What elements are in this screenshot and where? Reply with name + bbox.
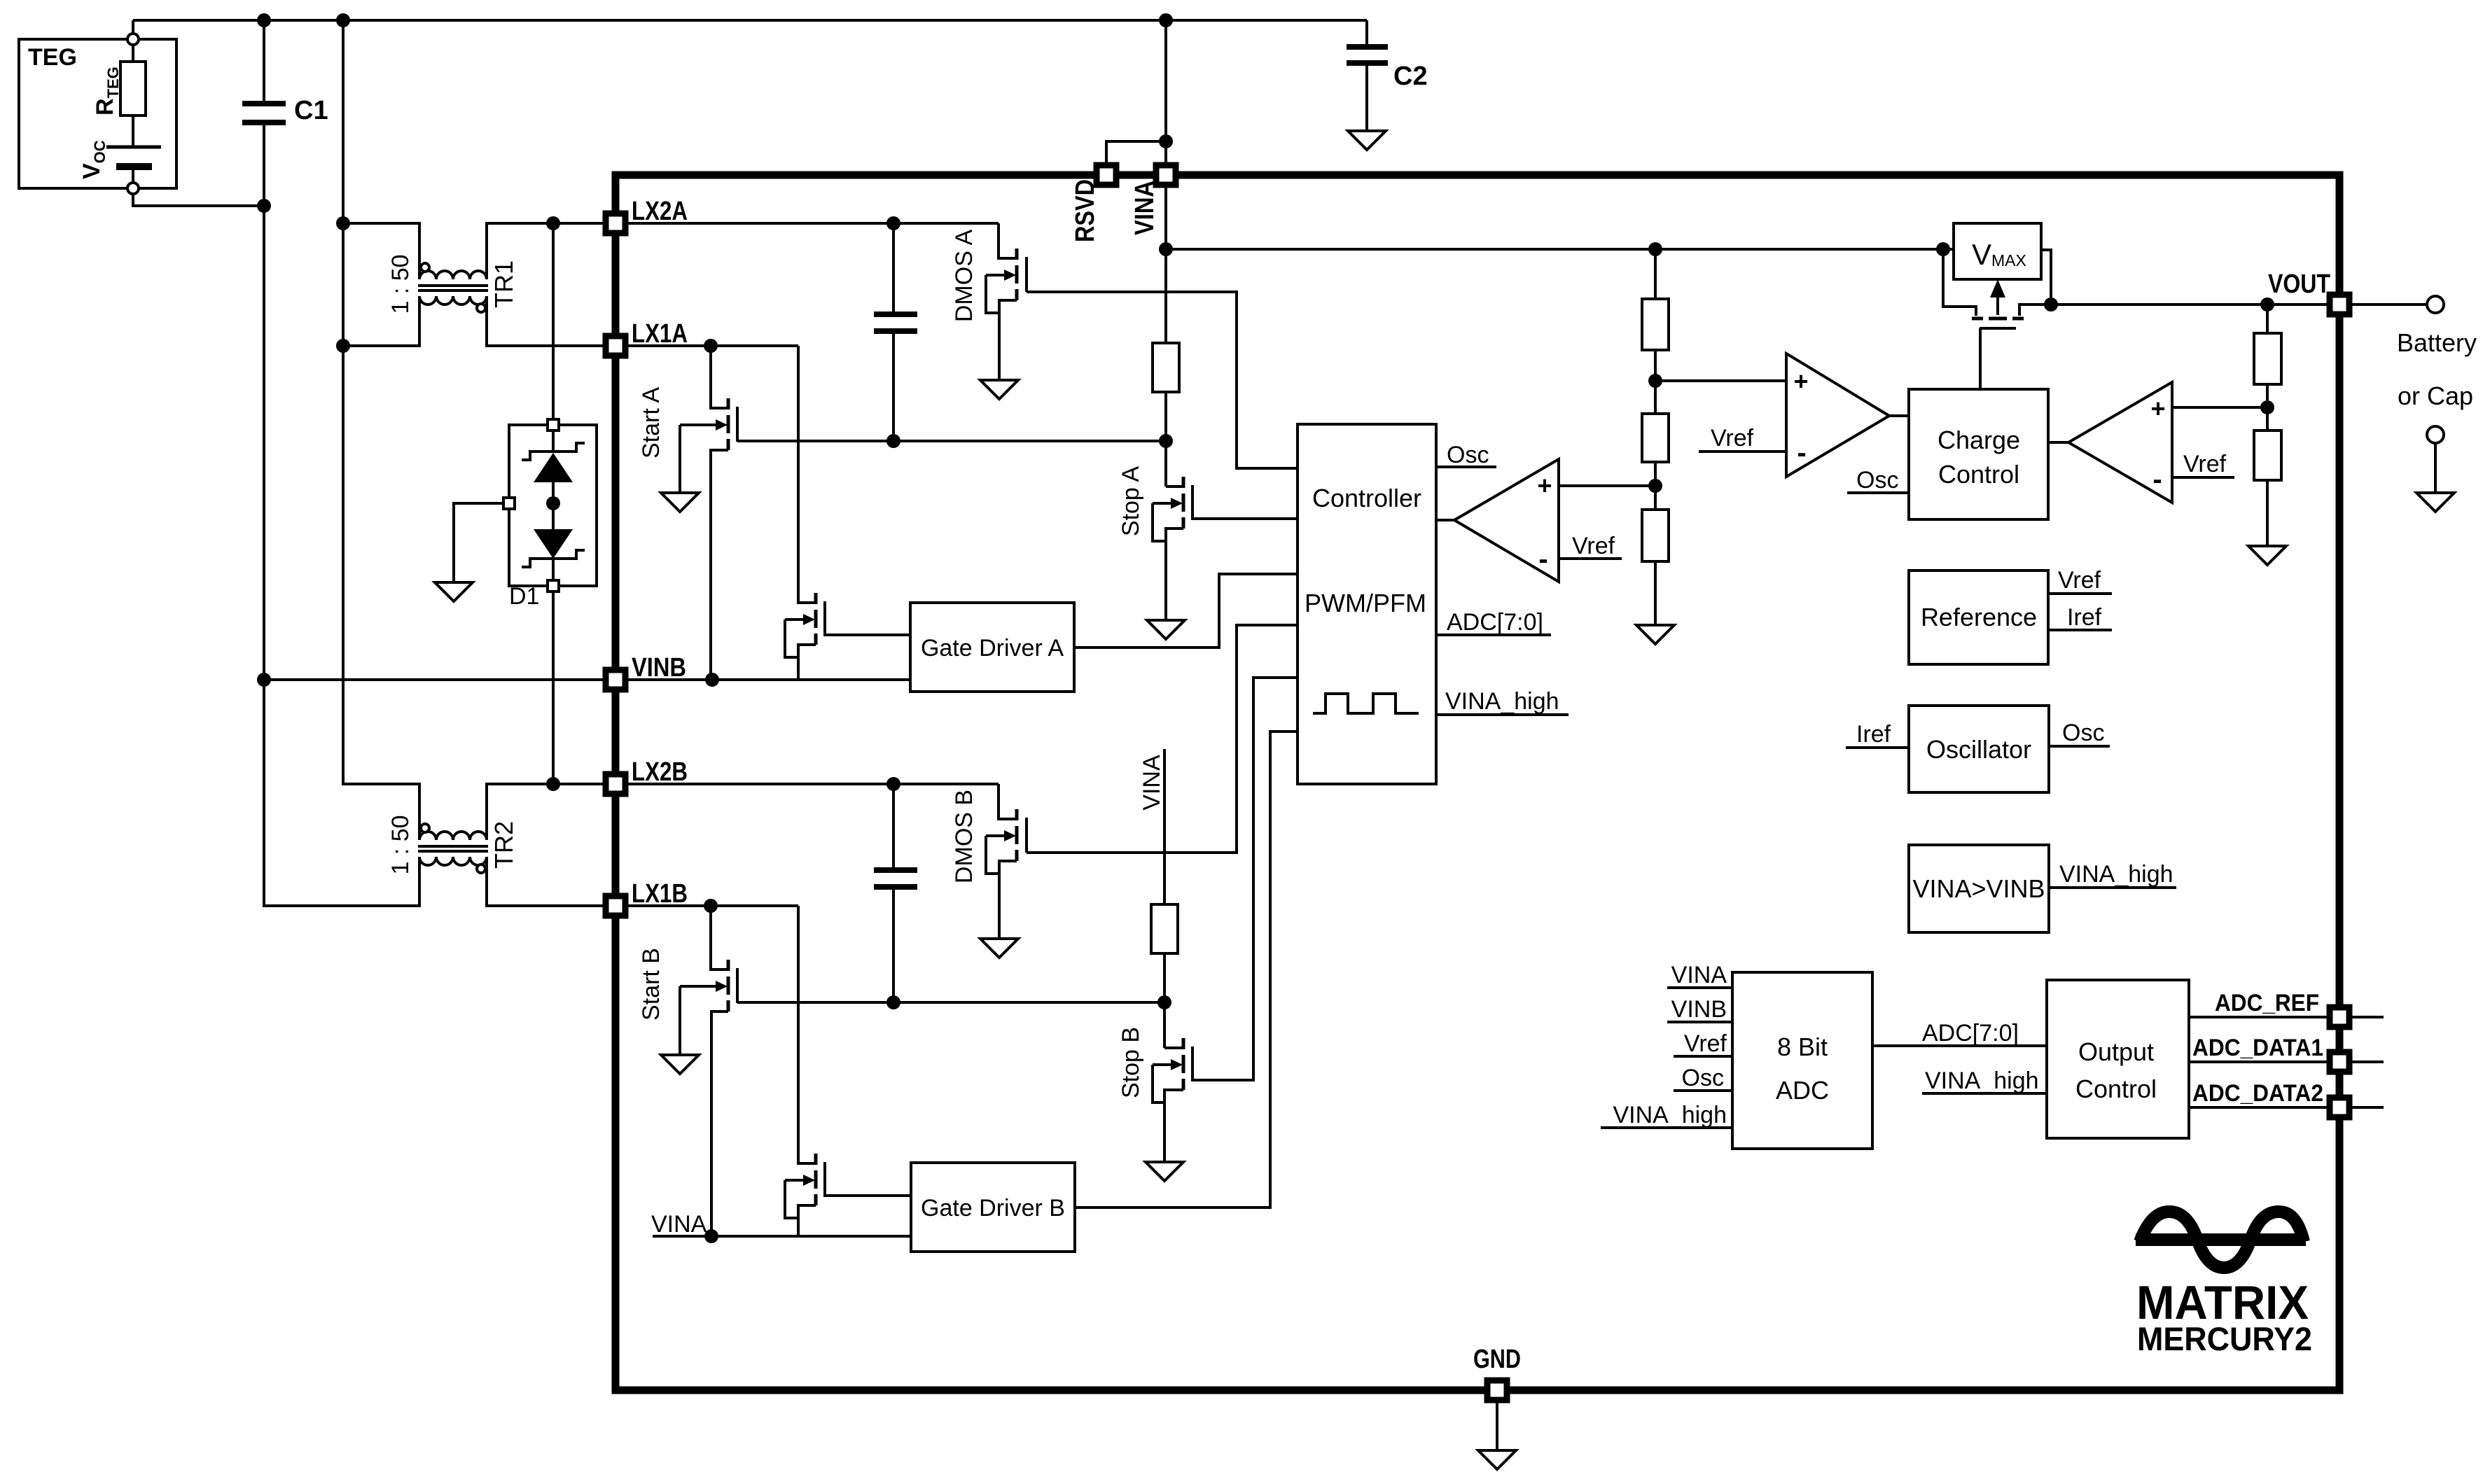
wire Vmax left bracket: [1943, 249, 1976, 316]
svg-text:1 : 50: 1 : 50: [387, 254, 414, 314]
svg-text:Stop B: Stop B: [1118, 1027, 1144, 1098]
terminal TEG-: [127, 183, 139, 194]
terminal Battery return: [2427, 426, 2444, 443]
net stub VINA adc: [1667, 986, 1732, 989]
svg-text:C2: C2: [1393, 62, 1428, 91]
svg-text:Oscillator: Oscillator: [1926, 735, 2031, 764]
node divider tap2: [1648, 479, 1662, 493]
wire GDA gate input: [825, 633, 910, 636]
svg-text:+: +: [1793, 367, 1808, 395]
net stub Osc adc: [1674, 1089, 1732, 1092]
wire battery to TEG-: [132, 167, 134, 183]
ground DMOS B: [980, 939, 1018, 958]
svg-text:RSVD: RSVD: [1071, 179, 1100, 242]
svg-text:LX1A: LX1A: [632, 319, 688, 349]
svg-text:Vref: Vref: [2183, 451, 2227, 477]
svg-text:Iref: Iref: [1856, 721, 1891, 748]
wire LX1B net: [615, 904, 798, 907]
wire top rail: [133, 19, 1367, 22]
svg-text:VINB: VINB: [1671, 996, 1727, 1023]
terminal Battery: [2427, 296, 2444, 313]
svg-text:Iref: Iref: [2067, 604, 2102, 631]
wire Stop B gate to controller: [1192, 678, 1298, 1080]
net stub Vref PWM comparator: [1559, 557, 1622, 560]
ground D1: [435, 582, 473, 601]
wire VOUT comparator output: [2048, 441, 2068, 444]
box Controller PWM/PFM: [1298, 424, 1436, 784]
svg-text:Vref: Vref: [1684, 1030, 1727, 1057]
op-amp VOUT comparator: [2068, 382, 2172, 503]
wire TEG bottom lead: [133, 194, 264, 206]
wire LX2B net: [615, 783, 999, 785]
svg-text:Osc: Osc: [1447, 442, 1489, 468]
node VOUT divider tap: [2260, 400, 2274, 414]
net stub Vref charge comparator: [1699, 450, 1786, 453]
svg-text:ADC[7:0]: ADC[7:0]: [1447, 609, 1543, 636]
pin VOUT square: [2330, 295, 2349, 314]
node TR1-top/D1 junction: [546, 216, 560, 230]
svg-text:ADC: ADC: [1776, 1076, 1829, 1105]
net stub VINA_high adc: [1601, 1126, 1732, 1129]
op-amp charge comparator left: [1786, 353, 1889, 477]
transistor Vmax pass PMOS: [1972, 250, 2051, 328]
node VINA/Vmax junction: [1936, 242, 1950, 256]
svg-text:D1: D1: [509, 583, 539, 610]
node VINB/column junction: [257, 673, 271, 687]
wire TR1 secondary top to D1: [552, 223, 555, 425]
svg-text:DMOS B: DMOS B: [951, 790, 978, 883]
net stub VINA_high controller: [1436, 713, 1569, 716]
wire PWM comparator plus input: [1559, 484, 1655, 487]
ground Start A: [661, 493, 699, 512]
ground battery: [2416, 493, 2454, 512]
svg-text:ADC[7:0]: ADC[7:0]: [1922, 1020, 2019, 1046]
wire Stop A gate to controller: [1192, 517, 1298, 520]
wire Start A gate row: [737, 440, 1166, 442]
node D1/LX2B junction: [546, 777, 560, 791]
svg-text:VOUT: VOUT: [2268, 269, 2330, 299]
svg-text:-: -: [2152, 464, 2162, 495]
node VINB/StartA-source junction: [705, 673, 719, 687]
transistor DMOS A: [951, 223, 1027, 380]
op-amp PWM comparator: [1454, 459, 1559, 582]
svg-text:Charge: Charge: [1938, 426, 2020, 454]
capacitor A: [892, 223, 895, 441]
svg-text:Osc: Osc: [1856, 467, 1898, 493]
node TR1 primary bottom: [336, 339, 350, 353]
wire VINA row: [1166, 248, 1943, 251]
svg-text:VINA_high: VINA_high: [1925, 1067, 2039, 1094]
wire Start B gate row: [737, 1001, 1164, 1004]
wire VINA column: [1164, 20, 1167, 486]
ground divider: [1636, 625, 1674, 644]
node LX1A/StartA junction: [704, 339, 718, 353]
svg-text:TR2: TR2: [489, 821, 518, 869]
net stub Vref VOUT comparator: [2172, 476, 2234, 479]
pin ADC_REF square: [2330, 1007, 2349, 1027]
capacitor C1: [263, 20, 265, 104]
svg-text:VINA_high: VINA_high: [1445, 688, 1559, 715]
ground Stop A: [1147, 620, 1185, 639]
svg-text:Reference: Reference: [1921, 603, 2037, 631]
wire Vmax gate to charge control: [1979, 328, 1982, 389]
wire divider mid2: [1654, 462, 1657, 510]
svg-text:VINA_high: VINA_high: [2059, 861, 2173, 888]
wire resistor to Stop B: [1163, 953, 1166, 1048]
svg-text:-: -: [1797, 437, 1806, 468]
capacitor B: [892, 784, 895, 1002]
wire GDB output to controller: [1075, 731, 1298, 1207]
wire VINB net: [264, 678, 910, 681]
pin ADC_DATA1 square: [2330, 1052, 2349, 1072]
ground VOUT divider: [2248, 546, 2286, 565]
pin LX2A square: [606, 213, 625, 233]
TEG box: [19, 39, 176, 188]
logo wave mark: [2136, 1212, 2306, 1268]
net label VINA wire B: [653, 1235, 911, 1238]
wire GDB gate input: [825, 1194, 911, 1197]
svg-text:LX2A: LX2A: [632, 197, 688, 226]
node RSVD/VINA junction: [1159, 134, 1173, 148]
svg-text:1 : 50: 1 : 50: [387, 815, 414, 874]
transistor Start A: [638, 346, 737, 680]
wire VOUT row: [2051, 303, 2427, 306]
node LX2B/capB junction: [886, 777, 900, 791]
wire LX1A net: [615, 344, 798, 347]
wire D1 bottom to LX2B: [552, 591, 555, 784]
svg-text:ADC_DATA1: ADC_DATA1: [2192, 1035, 2323, 1061]
node top-rail/C1 junction: [257, 13, 271, 27]
wire DMOS A gate to controller: [1027, 292, 1298, 468]
node TR1 primary top: [336, 216, 350, 230]
svg-text:Start B: Start B: [638, 948, 665, 1021]
resistor Stop B pull: [1151, 904, 1178, 953]
svg-text:-: -: [1538, 544, 1547, 575]
net stub Osc charge control: [1847, 491, 1909, 494]
pin LX1B square: [606, 896, 625, 916]
node VOUT/divider junction: [2260, 297, 2274, 311]
svg-text:C1: C1: [294, 96, 328, 125]
svg-text:+: +: [2150, 394, 2165, 423]
node top-rail/TR-primary junction: [336, 13, 350, 27]
svg-text:Battery: Battery: [2397, 328, 2477, 357]
svg-text:VINA: VINA: [651, 1211, 707, 1238]
battery VOC: [106, 146, 161, 149]
resistor Stop A pull: [1153, 343, 1179, 392]
wire Start A body to ground: [679, 425, 681, 493]
box 8 Bit ADC: [1732, 972, 1872, 1149]
node VINA/Vmax-row junction: [1159, 242, 1173, 256]
svg-text:VINB: VINB: [632, 653, 686, 682]
svg-text:8 Bit: 8 Bit: [1777, 1032, 1828, 1061]
wire Start B body to ground: [679, 986, 681, 1055]
svg-text:ADC_REF: ADC_REF: [2215, 990, 2319, 1016]
resistor RTEG: [120, 62, 146, 115]
wire GND lead: [1496, 1400, 1498, 1450]
wire ADC_DATA2: [2189, 1106, 2384, 1109]
net stub Osc oscillator: [2049, 745, 2110, 748]
wire TEG internal top: [132, 45, 134, 62]
wire divider mid1: [1654, 350, 1657, 414]
svg-text:GND: GND: [1473, 1345, 1521, 1374]
box Oscillator: [1909, 706, 2049, 792]
svg-text:Gate Driver B: Gate Driver B: [921, 1195, 1065, 1221]
wire ADC_REF: [2189, 1016, 2384, 1018]
resistor divider R2: [1642, 414, 1669, 462]
wire battery return to ground: [2434, 443, 2437, 493]
svg-text:+: +: [1537, 471, 1552, 500]
wire charge comparator output: [1889, 414, 1909, 417]
wire ADC[7:0] bus: [1872, 1044, 2047, 1047]
svg-text:Osc: Osc: [2062, 720, 2104, 746]
svg-text:or Cap: or Cap: [2398, 381, 2473, 410]
resistor VOUT divider Ra: [2254, 333, 2281, 384]
wire charge comparator plus input: [1655, 379, 1786, 382]
box Output Control: [2047, 980, 2189, 1138]
svg-text:Controller: Controller: [1312, 484, 1421, 512]
node Stop A drain junction: [1159, 434, 1173, 448]
wire C1 bottom column to TR2 primary low side: [264, 122, 419, 906]
transformer TR1: [343, 223, 615, 346]
svg-text:VINA_high: VINA_high: [1613, 1102, 1727, 1128]
box Gate Driver A: [910, 603, 1074, 692]
wire RSVD hook: [1106, 141, 1166, 165]
pin LX2B square: [606, 774, 625, 794]
net label VINA stub B: [1163, 749, 1166, 904]
svg-text:TR1: TR1: [489, 260, 518, 308]
net stub Iref oscillator: [1846, 746, 1909, 749]
svg-text:LX1B: LX1B: [632, 879, 688, 909]
transistor Start B: [638, 906, 737, 1236]
svg-text:Gate Driver A: Gate Driver A: [921, 635, 1064, 661]
node Stop B drain junction: [1157, 995, 1171, 1009]
ground GND: [1478, 1450, 1516, 1469]
net stub Osc controller: [1436, 465, 1496, 468]
node top-rail/VINA junction: [1159, 13, 1173, 27]
svg-text:Vref: Vref: [1572, 533, 1615, 559]
wire comparator PWM output: [1436, 519, 1454, 521]
svg-text:VINA: VINA: [1671, 962, 1727, 988]
pin RSVD square: [1097, 165, 1116, 185]
pin GND square: [1487, 1380, 1507, 1400]
svg-text:Control: Control: [1938, 460, 2019, 489]
svg-text:VINA: VINA: [1139, 755, 1165, 811]
svg-text:DMOS A: DMOS A: [951, 230, 978, 323]
square wave glyph: [1313, 694, 1419, 713]
wire divider top: [1654, 249, 1657, 299]
terminal TEG+: [127, 34, 139, 45]
node LX1B/StartB junction: [704, 899, 718, 913]
node LX2A/capA junction: [886, 216, 900, 230]
box Charge Control: [1909, 389, 2048, 519]
svg-text:Start A: Start A: [638, 387, 665, 458]
svg-text:VINA: VINA: [1130, 181, 1160, 235]
transistor Stop A: [1118, 466, 1192, 620]
wire TR primary feed column: [343, 20, 419, 784]
node VINA/StartB source junction: [704, 1229, 718, 1243]
pin VINB square: [606, 670, 625, 689]
net stub Iref reference: [2048, 629, 2112, 631]
wire D1 left lead to ground: [454, 503, 503, 582]
transistor Gate Driver B input FET: [785, 906, 825, 1236]
net stub Vref reference: [2048, 592, 2112, 595]
box VMAX: [1954, 223, 2041, 279]
ground Stop B: [1146, 1162, 1183, 1181]
transistor Stop B: [1118, 1027, 1192, 1162]
wire RTEG to battery: [132, 115, 134, 147]
node capA/gate row junction: [886, 434, 900, 448]
IC boundary: [615, 175, 2339, 1390]
transformer TR2: [264, 784, 615, 906]
net stub Vref adc: [1674, 1055, 1732, 1058]
svg-text:Vref: Vref: [2058, 567, 2101, 594]
net stub VINA_high output control: [1922, 1092, 2047, 1095]
ground Start B: [661, 1055, 699, 1074]
svg-text:VINA>VINB: VINA>VINB: [1912, 874, 2045, 903]
node divider/VINA row: [1648, 242, 1662, 256]
wire VOUT divider mid: [2266, 384, 2269, 430]
diode pair D1: [503, 419, 597, 610]
wire TEG top lead: [132, 20, 134, 34]
node TEG-/C1 junction: [257, 199, 271, 213]
wire divider bottom: [1654, 561, 1657, 625]
wire ADC_DATA1: [2189, 1060, 2384, 1063]
wire VOUT comparator plus input: [2172, 406, 2267, 409]
box Reference: [1909, 570, 2048, 664]
resistor divider R1: [1642, 299, 1669, 350]
transistor DMOS B: [951, 784, 1027, 939]
wire VOUT divider bottom: [2266, 480, 2269, 546]
svg-text:MERCURY2: MERCURY2: [2137, 1320, 2312, 1357]
svg-text:Output: Output: [2078, 1037, 2154, 1066]
svg-text:PWM/PFM: PWM/PFM: [1305, 589, 1426, 617]
net stub ADC[7:0] controller: [1436, 633, 1551, 636]
resistor VOUT divider Rb: [2254, 430, 2281, 480]
svg-text:Vref: Vref: [1711, 425, 1754, 451]
box Gate Driver B: [911, 1163, 1075, 1252]
resistor divider R3: [1642, 510, 1669, 561]
wire DMOS B gate to controller: [1027, 625, 1298, 853]
svg-text:TEG: TEG: [28, 44, 77, 71]
node capB/gate row junction: [886, 995, 900, 1009]
svg-text:ADC_DATA2: ADC_DATA2: [2192, 1080, 2323, 1107]
pin LX1A square: [606, 336, 625, 356]
capacitor C2: [1365, 20, 1368, 47]
box VINA greater VINB: [1909, 845, 2049, 932]
ground C2: [1348, 131, 1386, 150]
node divider tap1: [1648, 374, 1662, 388]
svg-text:Control: Control: [2075, 1074, 2157, 1103]
pin VINA square: [1156, 165, 1176, 185]
svg-text:Osc: Osc: [1682, 1065, 1724, 1091]
pin ADC_DATA2 square: [2330, 1098, 2349, 1117]
svg-text:LX2B: LX2B: [632, 757, 688, 787]
transistor Gate Driver A input FET: [785, 346, 825, 680]
wire VOUT divider top: [2266, 304, 2269, 333]
ground DMOS A: [980, 380, 1018, 399]
node VOUT row left: [2044, 297, 2058, 311]
wire GDA output to controller: [1074, 574, 1298, 647]
net stub VINB adc: [1667, 1021, 1732, 1023]
wire LX2A net: [615, 222, 999, 225]
svg-text:Stop A: Stop A: [1118, 466, 1144, 537]
net stub VINA_high comparator out: [2049, 886, 2176, 889]
